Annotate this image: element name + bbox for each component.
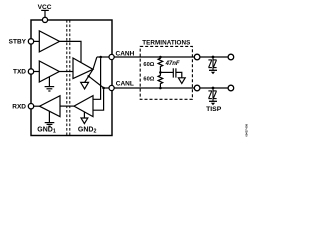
svg-text:60Ω: 60Ω: [143, 76, 154, 82]
node CANH termination tap: [159, 56, 162, 59]
ground at CANH protector: [209, 69, 217, 71]
svg-text:RXD: RXD: [12, 103, 26, 110]
svg-text:CANL: CANL: [116, 81, 134, 88]
wire receiver to GND2: [83, 112, 85, 118]
buffer U1B (TXD): [39, 61, 59, 82]
TISP surge protector on CANL: [208, 88, 216, 101]
ground GND2 under driver: [81, 82, 89, 89]
wire RXD pin to buffer: [34, 105, 40, 107]
wire TXD buffer output to driver: [59, 71, 73, 73]
svg-text:TISP: TISP: [206, 106, 222, 113]
svg-text:GND2: GND2: [78, 126, 97, 134]
resistor R1 60 ohm: [158, 57, 163, 72]
wire RXD buffer input from receiver: [60, 105, 74, 107]
VCC pin circle: [42, 17, 47, 22]
svg-text:60Ω: 60Ω: [143, 62, 154, 68]
resistor R2 60 ohm: [158, 72, 163, 88]
wire CANH pin to external rail: [114, 56, 194, 58]
svg-text:CANH: CANH: [116, 50, 135, 57]
capacitor C1 47nF: [173, 68, 176, 77]
ground at CANL protector: [209, 100, 217, 102]
ground GND2 at capacitor: [178, 78, 185, 84]
CANH rail inside box: [97, 56, 109, 58]
buffer U1A (STBY): [39, 31, 59, 52]
wire STBY pin to buffer: [34, 40, 40, 42]
buffer U1C (RXD, points left): [40, 96, 61, 117]
connector circle CANL right: [228, 85, 234, 91]
svg-text:09437-008: 09437-008: [245, 124, 249, 137]
receiver U3 (CAN receiver, points left): [74, 96, 93, 117]
wire driver to GND2 symbol: [85, 69, 93, 82]
wire CANL pin to external rail: [114, 87, 194, 89]
terminations dashed box: [140, 46, 192, 99]
node CANH protector tap: [212, 56, 215, 59]
wire CANH connector segment: [200, 56, 228, 58]
svg-text:STBY: STBY: [9, 39, 27, 46]
CANL pin circle: [109, 85, 114, 90]
wire CANL connector segment: [200, 87, 228, 89]
connector circle CANH right: [228, 54, 234, 60]
TXD pin circle: [28, 69, 33, 74]
node CANH junction: [99, 56, 102, 59]
ground under RXD buffer: [45, 111, 55, 126]
CANH pin circle: [109, 54, 114, 59]
node CANL junction: [102, 87, 105, 90]
wire STBY buffer output to driver enable: [60, 41, 82, 62]
VCC power symbol: [41, 10, 49, 17]
node CANL protector tap: [212, 87, 215, 90]
wire midpoint to capacitor: [160, 71, 173, 73]
STBY pin circle: [28, 39, 33, 44]
driver U2 (CAN driver): [73, 58, 93, 79]
connector circle CANH left: [194, 54, 200, 60]
svg-text:TXD: TXD: [13, 69, 26, 76]
ground GND2 under receiver: [81, 118, 88, 124]
CANL rail inside box: [104, 87, 109, 89]
svg-text:47nF: 47nF: [165, 61, 180, 67]
wire CANH junction to receiver input: [93, 58, 101, 99]
node resistor midpoint: [159, 71, 162, 74]
svg-text:GND1: GND1: [37, 126, 56, 134]
RXD pin circle: [28, 104, 33, 109]
isolation barrier dashed lines: [66, 20, 68, 136]
ground under TXD buffer: [45, 77, 55, 91]
svg-text:TERMINATIONS: TERMINATIONS: [142, 39, 190, 46]
node CANL termination tap: [159, 87, 162, 90]
wire driver output to CANH rail: [93, 57, 97, 69]
IC box outline: [31, 20, 112, 136]
wire TXD pin to buffer: [34, 71, 40, 73]
node on driver-gnd wire: [87, 75, 89, 77]
wire capacitor to ground: [176, 72, 182, 77]
wire CANL junction to receiver input: [93, 89, 104, 110]
connector circle CANL left: [194, 85, 200, 91]
wire driver node to CANL junction: [89, 76, 104, 88]
TISP surge protector on CANH: [208, 57, 216, 70]
